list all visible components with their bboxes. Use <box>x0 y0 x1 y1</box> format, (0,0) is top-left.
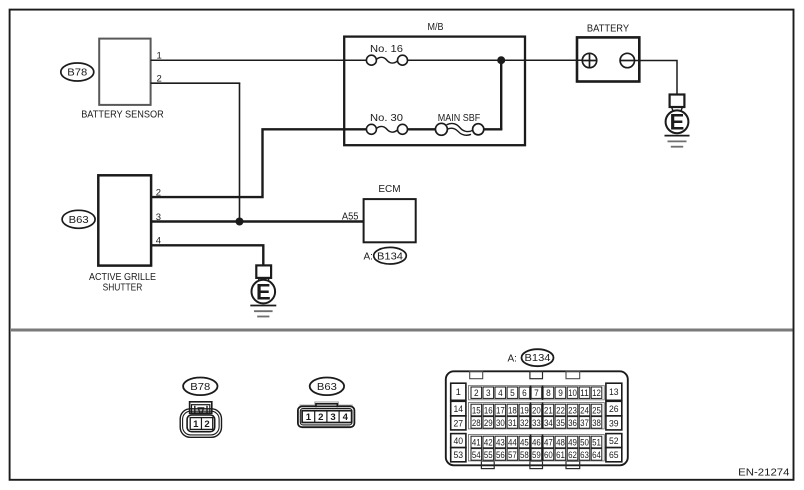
svg-text:1: 1 <box>193 419 199 430</box>
svg-text:39: 39 <box>609 418 619 429</box>
svg-text:43: 43 <box>496 437 505 448</box>
svg-text:B134: B134 <box>377 251 403 262</box>
B134 bottom index notches <box>481 461 579 468</box>
svg-text:55: 55 <box>484 450 493 461</box>
svg-text:46: 46 <box>532 437 541 448</box>
fuse No. 16 <box>366 55 407 65</box>
wire battery sensor pin2 horizontal <box>151 82 241 84</box>
svg-text:65: 65 <box>609 450 619 461</box>
svg-text:B63: B63 <box>317 382 337 393</box>
svg-text:61: 61 <box>556 450 565 461</box>
fuse No. 30 <box>366 124 407 134</box>
svg-text:No. 30: No. 30 <box>370 113 403 124</box>
wire battery negative to ground E <box>635 61 678 95</box>
svg-text:63: 63 <box>580 450 589 461</box>
svg-text:35: 35 <box>556 418 565 429</box>
svg-text:33: 33 <box>532 418 541 429</box>
svg-text:EN-21274: EN-21274 <box>738 467 790 478</box>
B134 pin 1 cell (left column) <box>451 383 466 400</box>
svg-text:A:: A: <box>364 251 373 262</box>
svg-text:28: 28 <box>472 418 481 429</box>
svg-text:50: 50 <box>580 437 589 448</box>
wire MAIN SBF to vertical riser <box>484 128 503 130</box>
B134 pin 52 cell (right column) <box>606 434 622 448</box>
battery positive terminal <box>582 53 596 67</box>
svg-text:14: 14 <box>454 404 464 415</box>
ECM connector reference A: B134 <box>364 247 407 264</box>
svg-text:SHUTTER: SHUTTER <box>103 283 143 294</box>
junction dot on pin3 wire <box>236 218 244 226</box>
wire fuse No.16 to battery + (through junction) <box>407 59 582 61</box>
svg-text:10: 10 <box>568 388 577 399</box>
svg-text:60: 60 <box>544 450 553 461</box>
svg-text:41: 41 <box>472 437 481 448</box>
svg-text:7: 7 <box>534 388 539 399</box>
svg-text:40: 40 <box>454 436 464 447</box>
svg-text:25: 25 <box>592 405 601 416</box>
svg-text:ECM: ECM <box>378 184 400 195</box>
B134 pin 14 cell (left column) <box>451 401 466 416</box>
svg-text:51: 51 <box>592 437 601 448</box>
connector view label oval B78 <box>183 378 217 396</box>
battery negative terminal <box>620 53 634 67</box>
wire AGS pin4 to ground E <box>151 245 263 265</box>
connector label oval B63 <box>62 210 95 228</box>
M/B fuse box <box>344 37 525 146</box>
svg-text:15: 15 <box>472 405 481 416</box>
B134 top index notches <box>470 371 580 378</box>
svg-text:A55: A55 <box>342 212 359 223</box>
svg-text:49: 49 <box>568 437 577 448</box>
svg-text:9: 9 <box>558 388 563 399</box>
svg-text:B134: B134 <box>525 353 551 364</box>
svg-text:BATTERY: BATTERY <box>587 24 630 35</box>
B134 pin 26 cell (right column) <box>606 401 622 416</box>
connector B134 outer shell <box>446 371 628 465</box>
svg-text:2: 2 <box>318 412 323 423</box>
svg-text:19: 19 <box>520 405 529 416</box>
svg-text:B63: B63 <box>69 215 89 226</box>
label ACTIVE GRILLE SHUTTER <box>89 272 156 294</box>
svg-text:38: 38 <box>592 418 601 429</box>
svg-text:29: 29 <box>484 418 493 429</box>
active grille shutter box <box>98 175 151 265</box>
svg-text:17: 17 <box>496 405 505 416</box>
svg-text:24: 24 <box>580 405 589 416</box>
svg-text:E: E <box>670 110 685 135</box>
svg-text:6: 6 <box>522 388 527 399</box>
B134 pin 53 cell (left column) <box>451 448 466 462</box>
B134 pin 39 cell (right column) <box>606 416 622 430</box>
svg-text:12: 12 <box>592 388 601 399</box>
connector B78 body (2-pin, front view) <box>180 402 221 438</box>
wire AGS pin2 to M/B No.30 line <box>151 129 344 197</box>
svg-text:E: E <box>256 279 271 304</box>
svg-text:47: 47 <box>544 437 553 448</box>
ECM box <box>364 199 416 242</box>
svg-text:B78: B78 <box>67 68 87 79</box>
wire AGS pin3 to ECM A55 <box>151 220 364 222</box>
B134 pin 27 cell (left column) <box>451 416 466 430</box>
svg-text:42: 42 <box>484 437 493 448</box>
svg-text:37: 37 <box>580 418 589 429</box>
ground symbol E (battery side) <box>665 95 690 147</box>
svg-text:57: 57 <box>508 450 517 461</box>
connector B63 body (4-pin, front view) <box>298 402 355 427</box>
connector view label oval B63 <box>310 378 344 396</box>
svg-text:3: 3 <box>486 388 491 399</box>
svg-text:20: 20 <box>532 405 541 416</box>
svg-text:A:: A: <box>508 354 517 365</box>
svg-text:34: 34 <box>544 418 553 429</box>
svg-text:53: 53 <box>454 450 464 461</box>
svg-text:2: 2 <box>474 388 479 399</box>
svg-text:13: 13 <box>609 387 619 398</box>
svg-text:No. 16: No. 16 <box>370 44 403 55</box>
svg-text:3: 3 <box>330 412 335 423</box>
connector label oval B78 <box>61 63 94 81</box>
svg-text:64: 64 <box>592 450 601 461</box>
wire battery sensor pin1 to fuse No.16 <box>151 59 367 61</box>
svg-text:2: 2 <box>204 419 209 430</box>
svg-text:30: 30 <box>496 418 505 429</box>
fusible link MAIN SBF <box>435 123 483 135</box>
battery sensor box <box>99 39 150 105</box>
svg-text:26: 26 <box>609 404 619 415</box>
svg-text:62: 62 <box>568 450 577 461</box>
svg-text:5: 5 <box>510 388 515 399</box>
wire No.30 circuit: M/B left edge to fuse No.30 <box>344 128 366 130</box>
svg-text:31: 31 <box>508 418 517 429</box>
svg-text:22: 22 <box>556 405 565 416</box>
svg-text:54: 54 <box>472 450 481 461</box>
svg-text:32: 32 <box>520 418 529 429</box>
svg-text:23: 23 <box>568 405 577 416</box>
svg-text:44: 44 <box>508 437 517 448</box>
svg-text:45: 45 <box>520 437 529 448</box>
svg-text:BATTERY SENSOR: BATTERY SENSOR <box>81 110 164 121</box>
B134 pin 40 cell (left column) <box>451 434 466 448</box>
svg-text:58: 58 <box>520 450 529 461</box>
wire battery sensor pin2 vertical down to junction on pin3 line <box>239 83 241 221</box>
B134 pin rows 41-51 and 54-64 <box>469 435 605 461</box>
svg-text:1: 1 <box>306 412 312 423</box>
svg-text:52: 52 <box>609 436 619 447</box>
svg-text:4: 4 <box>498 388 503 399</box>
battery box <box>577 37 639 81</box>
svg-text:ACTIVE GRILLE: ACTIVE GRILLE <box>89 272 156 283</box>
B134 pin rows 15-25 and 28-38 <box>469 403 605 429</box>
ground symbol E (active grille shutter side) <box>250 265 276 316</box>
svg-text:18: 18 <box>508 405 517 416</box>
svg-text:4: 4 <box>343 412 349 423</box>
svg-text:B78: B78 <box>190 382 210 393</box>
svg-text:8: 8 <box>546 388 551 399</box>
B134 pin 13 cell (right column) <box>606 383 622 400</box>
junction dot at No.16 line <box>497 56 505 64</box>
svg-text:56: 56 <box>496 450 505 461</box>
wire vertical riser to junction on No.16 line <box>500 60 502 129</box>
B134 pin row 2-12 <box>469 386 605 400</box>
svg-text:11: 11 <box>580 388 589 399</box>
svg-text:16: 16 <box>484 405 493 416</box>
svg-text:27: 27 <box>454 418 464 429</box>
ECM connector view label A: B134 <box>508 349 554 366</box>
svg-text:48: 48 <box>556 437 565 448</box>
svg-text:M/B: M/B <box>428 22 444 33</box>
svg-text:21: 21 <box>544 405 553 416</box>
B134 pin 65 cell (right column) <box>606 448 622 462</box>
svg-text:MAIN SBF: MAIN SBF <box>438 113 481 124</box>
svg-text:1: 1 <box>456 387 461 398</box>
svg-text:36: 36 <box>568 418 577 429</box>
wire fuse No.30 to MAIN SBF <box>407 128 435 130</box>
svg-text:59: 59 <box>532 450 541 461</box>
